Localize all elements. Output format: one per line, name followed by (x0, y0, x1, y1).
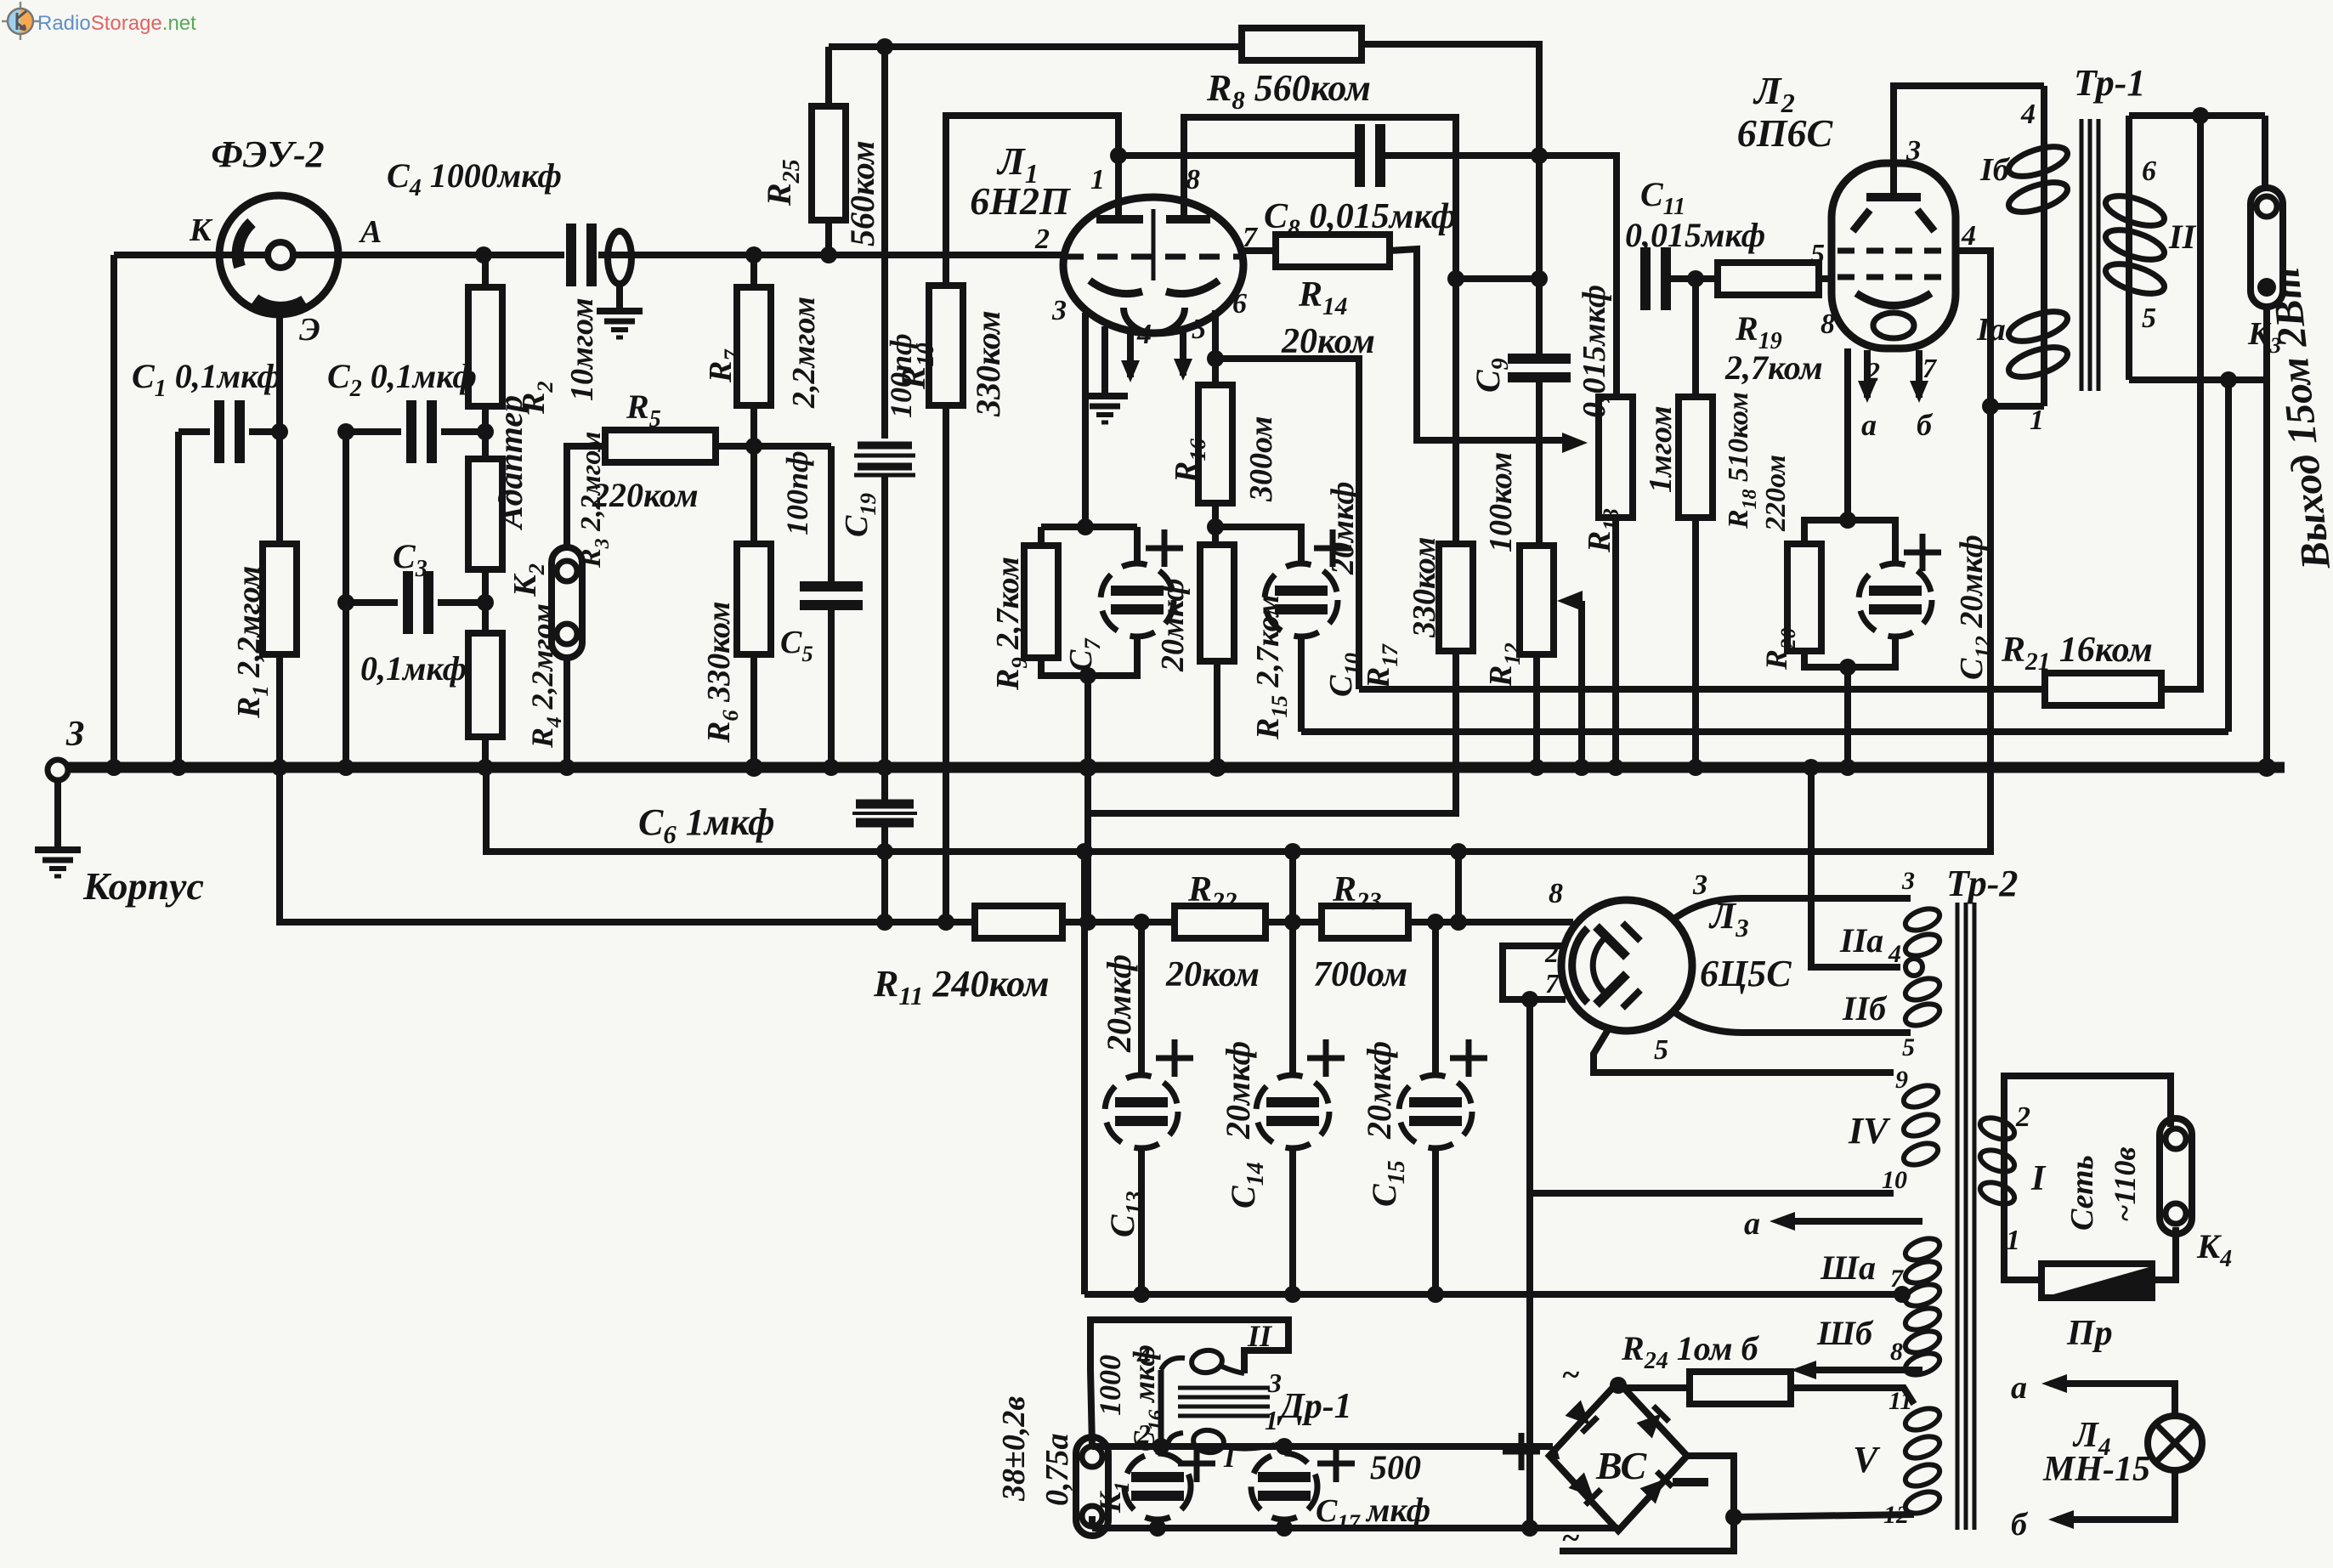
resistor R22 (1175, 906, 1266, 938)
svg-text:Тр-2: Тр-2 (1946, 863, 2018, 904)
node B+ join (1450, 914, 1467, 931)
node R12-bus (1528, 759, 1545, 776)
svg-text:3: 3 (1901, 867, 1915, 895)
svg-text:8: 8 (1821, 309, 1835, 340)
svg-text:а: а (2011, 1370, 2027, 1406)
node C13-rail (1133, 1286, 1150, 1303)
wire R9 bottom (1041, 658, 1088, 676)
node R20/C12 bottom (1839, 659, 1856, 676)
svg-text:а: а (1744, 1206, 1760, 1242)
diode bridge arm 3 (1568, 1472, 1600, 1504)
svg-text:С6​ 1мкф: С6​ 1мкф (638, 801, 775, 849)
node left-bus (105, 759, 122, 776)
node B+ screen (1450, 843, 1467, 860)
choke Др-1 core (1178, 1386, 1270, 1390)
arrow b lamp (2064, 1516, 2065, 1523)
capacitor C17 (1251, 1453, 1317, 1520)
svg-text:Тр-1: Тр-1 (2074, 62, 2145, 104)
wire C8 to R13 (1385, 156, 1617, 397)
wire A to C4 (292, 252, 564, 258)
winding IIa (1903, 904, 1943, 934)
wire R10 bottom to R11 (943, 405, 949, 922)
node heater/minus (1521, 1520, 1538, 1537)
arrow a heater (1787, 1218, 1922, 1225)
fuse Пр (2041, 1264, 2152, 1298)
node C19-bus (876, 759, 893, 776)
svg-text:5: 5 (2142, 303, 2156, 334)
svg-text:Корпус: Корпус (82, 864, 204, 908)
svg-text:К: К (189, 212, 213, 248)
wire pin6 feedback loop (1215, 359, 1359, 689)
node R9/C7 bottom (1079, 667, 1096, 684)
wire R5 right (716, 443, 754, 450)
wire C9 to R12 (1536, 380, 1543, 546)
node secondary-bot (2220, 371, 2237, 388)
wire top bus left (829, 43, 1242, 50)
svg-text:220ком: 220ком (592, 476, 699, 514)
svg-text:3: 3 (1051, 295, 1067, 326)
svg-text:1: 1 (2030, 405, 2044, 436)
wire mains bottom (2004, 1220, 2041, 1280)
node C13 col top (1076, 843, 1093, 860)
plus C16 (1178, 1461, 1215, 1467)
node K L2 (1839, 512, 1856, 529)
winding IV (1901, 1081, 1941, 1111)
resistor R13 (potentiometer) (1599, 397, 1633, 518)
wire column C7-bus to R11 node (1084, 767, 1091, 922)
svg-text:2: 2 (1866, 356, 1880, 387)
svg-text:20ком: 20ком (1165, 955, 1260, 994)
lamp Л4 МН-15 (2148, 1416, 2202, 1470)
tube Л1 divider (1152, 209, 1156, 280)
capacitor C6 (881, 767, 888, 802)
wire secondary bottom (2129, 376, 2265, 383)
ground tube L1 (1082, 393, 1128, 399)
node Э/C1 (271, 423, 288, 440)
plus C15 (1450, 1056, 1487, 1061)
node C17 bottom (1276, 1520, 1293, 1537)
svg-text:20мкф: 20мкф (1100, 954, 1138, 1053)
svg-text:38±0,2в: 38±0,2в (996, 1396, 1032, 1502)
tube Л3 6Ц5С envelope (1561, 900, 1692, 1031)
svg-text:RadioStorage.net: RadioStorage.net (37, 12, 196, 35)
wire R13 bottom (1612, 518, 1619, 767)
node R2-R3 (477, 423, 494, 440)
node C16 bottom (1149, 1520, 1166, 1537)
winding V (1903, 1404, 1943, 1434)
resistor R24 (1690, 1372, 1791, 1404)
svg-text:330ком: 330ком (1407, 537, 1442, 638)
choke Др-1 shield box wire (1090, 1320, 1288, 1446)
wire R25 top (825, 47, 832, 106)
wire C7 top lead (1134, 527, 1141, 563)
node C11 line (1531, 270, 1548, 287)
capacitor C9 (1508, 354, 1571, 364)
node feedback top (2192, 107, 2209, 124)
svg-text:З: З (65, 715, 84, 754)
resistor R2 (468, 287, 502, 406)
wire to C8 (1118, 152, 1355, 159)
wire to C10 (1215, 527, 1301, 563)
svg-text:0,1мкф: 0,1мкф (360, 649, 467, 688)
connector K3 output jack (2251, 188, 2283, 307)
capacitor C11 (1640, 247, 1651, 310)
svg-text:МН-15: МН-15 (2042, 1450, 2150, 1489)
wire R11 left (946, 919, 975, 926)
capacitor C14 (1256, 1075, 1329, 1148)
node C17 top (1276, 1438, 1293, 1455)
wire K3 top (2262, 116, 2268, 188)
resistor R14 (1276, 235, 1390, 267)
resistor R20 (1787, 544, 1821, 651)
svg-text:б: б (1917, 408, 1934, 442)
svg-text:4: 4 (2020, 99, 2036, 130)
svg-text:V: V (1853, 1439, 1881, 1480)
node C14-rail (1284, 1286, 1301, 1303)
svg-text:Iб: Iб (1979, 152, 2011, 188)
capacitor C5 (828, 446, 835, 586)
wire cathode L2 (1844, 348, 1851, 520)
svg-text:~110в: ~110в (2108, 1146, 2142, 1222)
capacitor C12 (1859, 563, 1932, 637)
wire to C12 (1848, 520, 1895, 563)
winding IIb (1903, 974, 1943, 1004)
tube Л1 cathode arcs (1090, 280, 1142, 294)
wire heater L3 down (1526, 999, 1533, 1527)
resistor R16 (1198, 385, 1232, 503)
wire R21 to secondary (2161, 116, 2200, 689)
tube Л3 plates (1596, 926, 1627, 957)
winding IIa center tap (1905, 959, 1922, 976)
wire Э drop (276, 314, 283, 544)
svg-text:II: II (2168, 218, 2197, 256)
plus C7 (1146, 546, 1183, 552)
wire lower rail y1523 (1084, 1291, 1900, 1298)
wire R6 bottom (750, 654, 757, 767)
wire anode L2 to Tr-1 (1894, 86, 2044, 197)
node R10/R11 (937, 914, 954, 931)
svg-text:20мкф: 20мкф (1360, 1041, 1398, 1140)
wire R8 right drop (1362, 44, 1539, 356)
svg-text:Сеть: Сеть (2064, 1155, 2100, 1231)
wire to Tr-1 pin1 (1990, 403, 2044, 410)
svg-text:1: 1 (1265, 1405, 1278, 1435)
wire C1 left (178, 428, 210, 435)
node R3-R4 (477, 594, 494, 611)
svg-text:Э: Э (299, 312, 320, 348)
wire C14 bottom (1289, 1148, 1296, 1294)
capacitor C1 (214, 400, 224, 463)
capacitor C16 (1124, 1453, 1191, 1520)
svg-text:а: а (1861, 408, 1877, 442)
wire K2 to bus (563, 658, 570, 767)
svg-text:II: II (1247, 1319, 1273, 1353)
resistor R6 (737, 544, 771, 654)
arrow a lamp (2057, 1380, 2058, 1387)
plus C13 (1156, 1056, 1193, 1061)
svg-text:IIа: IIа (1839, 921, 1883, 959)
svg-text:560ком: 560ком (843, 140, 881, 246)
wire Л3 cathode-bottom to IV pin9 (1594, 1028, 1894, 1073)
node R9/C7 (1077, 518, 1094, 535)
wire choke pin1 lead (1275, 1445, 1284, 1446)
resistor R25 (812, 106, 846, 220)
svg-text:Шб: Шб (1816, 1314, 1874, 1352)
node top-C19 (876, 38, 893, 55)
resistor R4 (468, 633, 502, 737)
svg-text:5: 5 (1654, 1034, 1668, 1066)
node bridge plus (1610, 1377, 1627, 1394)
capacitor C2 (406, 400, 416, 463)
svg-text:20ком: 20ком (1281, 322, 1375, 361)
wire R5node-C5 (754, 443, 831, 450)
wire C3 right (438, 599, 485, 606)
wire secondary top (2129, 112, 2265, 119)
svg-text:1000: 1000 (1093, 1355, 1127, 1416)
wire anode1 lead (1115, 156, 1122, 218)
tube Л2 anode bar (1866, 193, 1921, 201)
tube Л1 pin8 plate lead (1181, 216, 1187, 223)
resistor R5 (605, 430, 716, 462)
wire C13 bottom (1138, 1148, 1145, 1294)
wire to C11 (1456, 275, 1539, 282)
tube Л1 6Н2П envelope (1063, 197, 1243, 333)
wire B+ to R23 node (1455, 852, 1462, 922)
svg-text:0,75а: 0,75а (1039, 1434, 1075, 1507)
svg-text:ФЭУ-2: ФЭУ-2 (211, 133, 324, 175)
node C16 top (1152, 1438, 1169, 1455)
wire R3-R4 (482, 569, 489, 633)
resistor R15 (1200, 545, 1234, 661)
svg-text:5: 5 (1810, 239, 1825, 270)
ground Корпус (35, 846, 81, 853)
tube Л2 grid dashes (1838, 248, 1950, 254)
svg-text:2,7ком: 2,7ком (1724, 348, 1823, 387)
svg-text:8: 8 (1890, 1338, 1903, 1366)
svg-text:Пр: Пр (2066, 1314, 2113, 1353)
resistor R11 (975, 906, 1062, 938)
svg-text:9: 9 (1895, 1066, 1908, 1094)
plus C17 (1317, 1461, 1355, 1467)
tube Л2 beam plates (1853, 210, 1870, 231)
connector pin (grounded) after C4 (608, 231, 631, 284)
connector K2 Адаптер (552, 547, 582, 658)
svg-text:8: 8 (1186, 164, 1200, 195)
wire R4 bottom (482, 737, 489, 767)
wire R14 wiper line (1390, 249, 1564, 440)
heater arrow b L2 (1916, 350, 1922, 398)
choke Др-1 winding II (1158, 1370, 1164, 1446)
resistor R21 (2045, 673, 2161, 705)
node wiper-bus (1573, 759, 1590, 776)
wire anode2 (pin8) loop (1184, 117, 1456, 279)
svg-text:7: 7 (1922, 353, 1938, 383)
capacitor C3 (403, 571, 413, 634)
wire K2 to R5 (567, 446, 605, 547)
node R11/col (1079, 914, 1096, 931)
wire R2 top (482, 255, 489, 287)
resistor R9 (1024, 546, 1058, 658)
node K2-bus (558, 759, 575, 776)
wire C2 left (346, 428, 401, 435)
node anode1 (1110, 147, 1127, 164)
node R4-bus (477, 759, 494, 776)
diode bridge arm 2 (1636, 1406, 1668, 1438)
wire vibrator minus rail (1092, 1525, 1618, 1531)
wire C13 top lead (1138, 922, 1145, 1075)
plus C10 (1314, 546, 1351, 552)
resistor R8 (1242, 28, 1362, 60)
node heater L3 (1521, 991, 1538, 1008)
wire C1 drop (175, 432, 182, 767)
wire C3 left (346, 599, 398, 606)
resistor R19 (1718, 263, 1819, 295)
node plate2 line (1447, 270, 1464, 287)
svg-text:IIб: IIб (1842, 989, 1888, 1027)
wire C10 bottom (1298, 637, 1305, 732)
svg-text:2: 2 (2015, 1101, 2030, 1133)
wire C11 to R19 (1671, 275, 1718, 282)
svg-text:б: б (2011, 1507, 2029, 1543)
wire R12 wiper to bus (1578, 601, 1585, 767)
wire pin12 line (1734, 1514, 1914, 1517)
wire R9 top lead (1038, 527, 1045, 546)
svg-text:4: 4 (1961, 220, 1976, 252)
resistor R3 (468, 459, 502, 569)
wire R9-C7 top (1041, 524, 1137, 530)
minus bridge (1673, 1478, 1708, 1486)
svg-text:I: I (2030, 1159, 2047, 1198)
svg-text:IV: IV (1848, 1110, 1891, 1152)
node R22/R23 (1284, 914, 1301, 931)
node tap-bus (1803, 759, 1820, 776)
wire C1 right (249, 428, 280, 435)
wire pin3 down (1082, 313, 1089, 527)
svg-text:Адаптер: Адаптер (491, 395, 529, 531)
node IIIa tap (1894, 1286, 1911, 1303)
wire vibrator plus rail (1092, 1443, 1553, 1450)
plus bridge (1503, 1449, 1540, 1455)
tube Л3 heater bracket (1503, 946, 1566, 999)
wire earth lead (54, 780, 61, 847)
wire to bus (1084, 676, 1091, 767)
bridge rectifier ВС (1549, 1382, 1687, 1531)
node screen tap C14 (1284, 843, 1301, 860)
svg-text:330ком: 330ком (969, 310, 1007, 417)
node R1-bus (271, 759, 288, 776)
svg-text:Шa: Шa (1820, 1248, 1876, 1287)
wire cathode to bus (1844, 667, 1851, 767)
wire mains top (2004, 1076, 2171, 1127)
tube Л1 grid dashes (1063, 254, 1244, 260)
wire R1 bottom (276, 654, 283, 767)
wire R22-R23 (1266, 919, 1322, 926)
resistor R7 (737, 287, 771, 405)
svg-text:220ом: 220ом (1760, 455, 1792, 532)
node C7-bus (1079, 758, 1097, 777)
connector K1 (1076, 1437, 1108, 1536)
svg-text:6Ц5С: 6Ц5С (1700, 953, 1792, 994)
wire C14 top lead (1289, 922, 1296, 1075)
wire feedback y861 (1301, 728, 2228, 735)
resistor R23 (1322, 906, 1408, 938)
ground after C4 (597, 308, 643, 314)
node C13 top (1133, 914, 1150, 931)
node R5/R7/R6 (745, 438, 762, 455)
svg-text:20мкф: 20мкф (1155, 578, 1191, 672)
node C5-bus (823, 759, 840, 776)
wire C6 column down (881, 852, 888, 922)
jog to bridge left vertex (1549, 1446, 1555, 1456)
node R18 top (1687, 270, 1704, 287)
diode bridge arm 1 (1565, 1400, 1597, 1432)
svg-text:10: 10 (1882, 1166, 1907, 1194)
wire R11-R22 (1062, 919, 1175, 926)
wire R18 top lead (1692, 279, 1699, 397)
arrow b heater (1808, 1367, 1922, 1373)
node R18-bus (1687, 759, 1704, 776)
wire C14 column (1289, 852, 1296, 922)
transformer Tr-1 primary coil (2041, 86, 2047, 406)
svg-text:R21​ 16ком: R21​ 16ком (2001, 631, 2153, 676)
svg-text:10мгом: 10мгом (564, 297, 600, 401)
node pin6 (1207, 350, 1224, 367)
winding I (2001, 1108, 2007, 1220)
arrowhead to R13 wiper (1562, 433, 1588, 453)
wire B+ rail to R11 (280, 767, 975, 922)
wire K3 to bus (2263, 306, 2270, 767)
svg-text:500: 500 (1370, 1448, 1421, 1486)
node C6/R11 line (876, 914, 893, 931)
wire R7-R6 (750, 405, 757, 544)
wire fuse to K4 (2152, 1227, 2176, 1280)
wire K1 bottom lead (1089, 1516, 1096, 1528)
wire R20 bottom (1804, 651, 1848, 667)
svg-text:6Н2П: 6Н2П (970, 179, 1071, 223)
node cathode-bus (1839, 759, 1856, 776)
svg-text:Др-1: Др-1 (1277, 1387, 1352, 1426)
node g2/Tr1-pin1 (1982, 398, 1999, 415)
tube Л3 plate outline to Tr-2 (1671, 898, 1911, 921)
node K3-bus (2257, 758, 2276, 777)
wire to R20 (1804, 520, 1848, 544)
svg-text:1: 1 (1090, 164, 1105, 195)
svg-text:20мкф: 20мкф (1219, 1041, 1257, 1140)
wire riser to feedback (2225, 380, 2232, 732)
svg-text:3: 3 (1692, 869, 1707, 901)
tube Л2 6П6С envelope (1832, 163, 1956, 348)
svg-text:1: 1 (2006, 1225, 2020, 1256)
svg-text:6П6С: 6П6С (1737, 111, 1834, 155)
heater pin5 arrow (1180, 326, 1186, 376)
wire C15 bottom (1432, 1148, 1439, 1294)
K3 sleeve contact (2257, 278, 2276, 297)
svg-text:6: 6 (1232, 288, 1247, 320)
wire C7 bottom (1088, 637, 1137, 676)
tube Л2 cathode arc (1856, 293, 1931, 306)
wire R17 to y957 (1088, 651, 1456, 813)
wire plate2 to R17 (1452, 279, 1459, 544)
RadioStorage.net logo (2, 2, 40, 40)
transformer Tr-2 core (1956, 903, 1960, 1530)
wire HT center tap (1811, 767, 1900, 967)
node C15-rail (1427, 1286, 1444, 1303)
diode bridge arm 4 (1639, 1471, 1672, 1503)
resistor R12 (potentiometer) (1520, 546, 1554, 654)
svg-text:8: 8 (1549, 878, 1563, 909)
plus C12 (1904, 550, 1941, 556)
wire screen g2 line (486, 251, 1990, 852)
